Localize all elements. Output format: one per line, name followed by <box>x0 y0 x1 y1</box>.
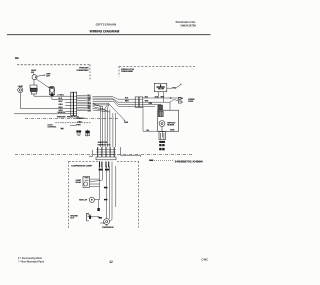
run capacitor <box>89 197 94 202</box>
freezer lamp A <box>30 85 37 94</box>
svg-text:CORD: CORD <box>188 101 194 103</box>
svg-text:240389701 K4994: 240389701 K4994 <box>175 160 204 163</box>
svg-text:#5303: #5303 <box>170 130 174 132</box>
connector J2 lower pin stubs <box>100 162 109 168</box>
svg-text:PWR: PWR <box>76 124 81 126</box>
freezer compartment label <box>77 67 90 72</box>
svg-text:GRN: GRN <box>124 122 129 124</box>
svg-text:FREEZER: FREEZER <box>57 117 66 119</box>
wire ground clip arrow <box>92 216 100 217</box>
wire tag on bundle (lower) <box>104 199 107 200</box>
evaporator fan symbol <box>157 84 165 89</box>
power cord label <box>188 99 195 103</box>
svg-text:ORG: ORG <box>78 121 83 123</box>
start relay / overload label <box>76 179 82 184</box>
svg-text:WHT: WHT <box>87 97 91 99</box>
wire J3 down to heater (YEL) <box>143 107 158 131</box>
defrost heater box <box>158 110 179 131</box>
ADC label <box>98 141 112 146</box>
wire labels left of connector <box>58 95 67 114</box>
cold control thermostat row <box>55 123 91 125</box>
last pin wire drop <box>115 166 117 207</box>
header rule <box>7 34 211 36</box>
vertical harness bundle down to compressor connector <box>100 107 115 148</box>
compressor harness connector J2 (pin block) <box>96 147 116 160</box>
junction riser to plug <box>170 100 176 111</box>
defrost fuse link <box>159 126 166 139</box>
wire row BLK into connector <box>14 99 71 114</box>
wires connector J3 to fan and defrost <box>143 98 183 107</box>
svg-text:WIRING DIAGRAM: WIRING DIAGRAM <box>90 29 120 33</box>
wire switch down to lamp A <box>33 80 35 86</box>
wire lamp B down <box>51 97 53 100</box>
defrost thermostat <box>159 121 165 127</box>
wire tag on bundle (mid) <box>104 187 107 189</box>
connector J1 right fan-out wires <box>77 95 87 110</box>
heater terminals row 1 <box>159 144 164 146</box>
svg-text:WHT: WHT <box>125 101 129 103</box>
light switch S1 <box>32 73 37 79</box>
diagonal wire to GRN arrow <box>109 104 125 121</box>
wires relay to bundle <box>90 179 103 186</box>
heater terminals row 2 <box>159 148 164 150</box>
freezer compartment boundary left dashed line <box>17 65 90 81</box>
fan-out wire color labels <box>87 95 91 112</box>
wire color labels mid right <box>145 97 153 106</box>
harness bracket left of J2 <box>89 150 93 156</box>
svg-text:DEFROST CTL: DEFROST CTL <box>98 144 112 146</box>
wire tag near compressor <box>99 217 102 219</box>
cold control label <box>48 125 58 129</box>
svg-text:YEL: YEL <box>146 130 149 132</box>
wire arrow to GRN label <box>37 75 45 77</box>
junction node dot <box>170 97 171 98</box>
svg-text:42: 42 <box>109 260 113 264</box>
svg-text:WHT: WHT <box>145 101 149 103</box>
light switch S1 label <box>31 70 37 74</box>
svg-text:GRN: GRN <box>76 118 81 120</box>
svg-text:GRT21R6AW: GRT21R6AW <box>96 23 117 27</box>
compressor compartment label <box>71 165 93 167</box>
svg-text:ORG: ORG <box>59 104 64 106</box>
svg-text:RUN CAP: RUN CAP <box>79 198 88 201</box>
svg-text:CONTROL: CONTROL <box>48 127 58 129</box>
pin number tags under stubs <box>99 169 110 171</box>
start relay component <box>83 177 90 188</box>
svg-text:YEL: YEL <box>87 100 90 102</box>
svg-text:FREEZER: FREEZER <box>79 67 89 69</box>
harness bus wires to right <box>93 96 136 106</box>
power cord plug <box>176 97 183 103</box>
wire bend into compressor right <box>110 220 112 222</box>
defrost heater label <box>167 122 176 126</box>
wire run cap to bundle <box>94 198 98 200</box>
compressor compartment dashed boundary <box>69 161 139 228</box>
svg-text:RELAY: RELAY <box>76 181 82 184</box>
lamp B <box>49 88 54 96</box>
svg-text:COMPRESSOR COMPT: COMPRESSOR COMPT <box>71 165 93 167</box>
wire arrow into compressor <box>100 222 105 223</box>
svg-text:C49C: C49C <box>201 258 208 262</box>
vertical wires into compressor compartment <box>100 162 113 220</box>
ground clip label <box>70 215 78 219</box>
thermostat contact cluster <box>77 131 82 136</box>
heater terminal band <box>159 141 165 143</box>
svg-text:HEATER: HEATER <box>167 124 175 127</box>
timer pin connector <box>86 130 90 137</box>
svg-text:COMPRESSOR: COMPRESSOR <box>102 227 114 229</box>
fan motor lead wires <box>159 88 173 102</box>
fresh food compartment boundary dashed line <box>119 66 195 76</box>
small tag under cold control line <box>61 128 64 130</box>
wire diagonal from switch to lamp B <box>37 79 50 88</box>
bottom compartment dash-dot line <box>15 154 193 156</box>
ground clip symbol <box>87 213 92 221</box>
svg-text:GRN/YEL: GRN/YEL <box>58 112 67 114</box>
run cap drop wire with tick <box>97 199 99 211</box>
GRN ground label with arrowhead <box>124 120 129 124</box>
wire bulb down and right <box>20 93 71 109</box>
compressor motor <box>104 219 110 226</box>
svg-text:BRN: BRN <box>59 107 64 109</box>
part number leader line <box>149 160 204 164</box>
GRN wire drop at right of connector <box>120 147 140 157</box>
defrost connector hatch <box>158 105 163 117</box>
svg-text:# = Fast-moving Parts: # = Fast-moving Parts <box>18 257 43 260</box>
connector J1 (double header) <box>71 92 77 115</box>
wire lamp A down and right <box>34 94 71 96</box>
fresh food lamp bulb <box>18 87 23 92</box>
fresh food compartment label <box>121 69 135 73</box>
pointer line from fan tag <box>175 84 181 89</box>
bus labels BLK/WHT <box>125 98 129 103</box>
freezer harness connector J3 <box>135 97 143 107</box>
svg-text:FRESH FOOD: FRESH FOOD <box>121 69 135 71</box>
GRN wire label <box>46 73 51 77</box>
svg-text:LT BLU: LT BLU <box>58 95 65 97</box>
svg-text:WHT: WHT <box>161 96 165 98</box>
compartment divider dash-dot line <box>25 117 118 119</box>
small part tag near boundary start <box>15 57 19 59</box>
evaporator fan motor box <box>154 83 167 91</box>
svg-text:5995416756: 5995416756 <box>180 23 196 27</box>
svg-text:* = Non-Illustrated Parts: * = Non-Illustrated Parts <box>18 261 45 264</box>
wires bend from bus into bundle <box>93 103 110 112</box>
